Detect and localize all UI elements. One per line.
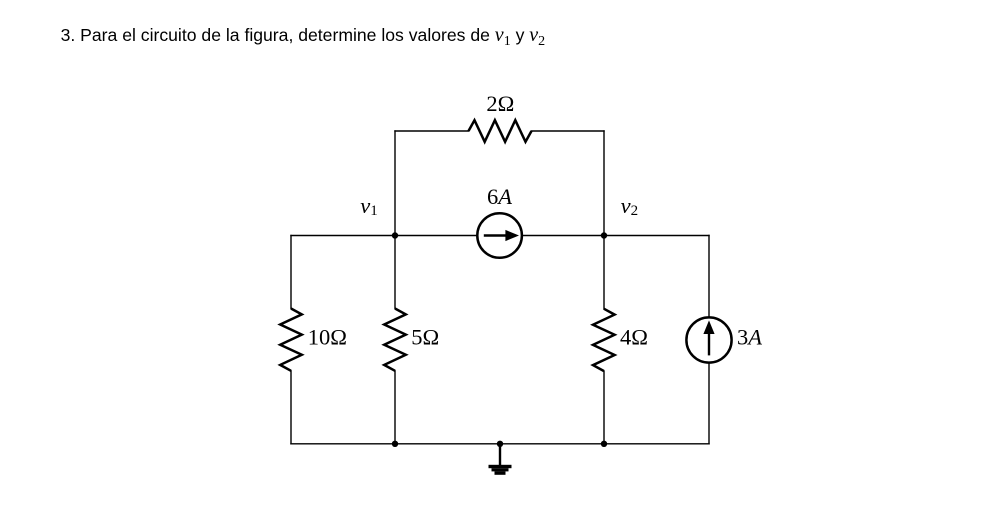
wire: 4-ohm branch lower segment (603, 371, 605, 444)
wire: top rail right segment (532, 130, 605, 132)
node dot bottom-center (497, 441, 503, 447)
current source I1 6A circle (477, 213, 522, 258)
wire: left rail upper segment (290, 236, 292, 309)
svg-text:10Ω: 10Ω (308, 324, 347, 349)
wire: 5-ohm branch upper segment (394, 236, 396, 309)
svg-text:2Ω: 2Ω (486, 91, 514, 116)
wire: right drop from top rail to node v2 (603, 131, 605, 236)
wire: right rail (708, 236, 710, 444)
node dot bottom-left (392, 441, 398, 447)
node dot v2 (601, 232, 607, 238)
resistor R 2ohm zigzag (469, 120, 532, 142)
wire: left rail lower segment (290, 371, 292, 444)
current source I2 3A circle (686, 317, 731, 362)
svg-text:3A: 3A (737, 324, 762, 349)
wire: top rail left segment (395, 130, 469, 132)
wire: 4-ohm branch upper segment (603, 236, 605, 309)
svg-text:5Ω: 5Ω (411, 324, 439, 349)
svg-text:v1: v1 (360, 193, 378, 219)
svg-text:6A: 6A (487, 184, 512, 209)
resistor R 10ohm zigzag (280, 309, 302, 371)
svg-text:3. Para el circuito de la figu: 3. Para el circuito de la figura, determ… (61, 24, 546, 49)
current source I2 3A arrow (703, 320, 714, 355)
resistor R 4ohm zigzag (593, 309, 615, 371)
current source I1 6A arrow (484, 230, 519, 241)
ground symbol (489, 465, 512, 475)
svg-text:4Ω: 4Ω (620, 324, 648, 349)
wire: middle rail (291, 235, 709, 237)
resistor R 5ohm zigzag (384, 309, 406, 371)
node dot bottom-right (601, 441, 607, 447)
node dot v1 (392, 232, 398, 238)
wire: 5-ohm branch lower segment (394, 371, 396, 444)
ground stub wire (499, 444, 501, 465)
wire: bottom rail (291, 443, 709, 445)
svg-text:v2: v2 (621, 193, 639, 219)
wire: left drop from top rail to node v1 (394, 131, 396, 236)
